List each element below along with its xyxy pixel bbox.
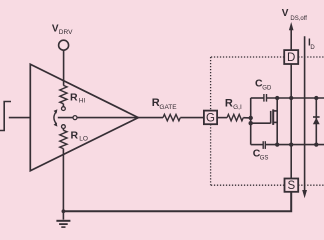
svg-text:R: R [70,91,78,103]
svg-text:V: V [282,8,289,19]
svg-text:R: R [71,130,79,142]
svg-text:GD: GD [262,85,272,91]
svg-text:DRV: DRV [59,29,73,36]
svg-text:G,I: G,I [233,104,242,111]
svg-text:D: D [287,52,295,64]
svg-text:S: S [287,180,295,192]
svg-text:G: G [206,112,215,124]
svg-text:D: D [310,45,315,51]
svg-text:LO: LO [79,136,88,143]
svg-text:HI: HI [79,97,86,104]
svg-text:DS,off: DS,off [290,16,307,22]
svg-text:R: R [225,97,233,109]
svg-text:GATE: GATE [159,104,177,111]
svg-text:GS: GS [260,155,269,161]
